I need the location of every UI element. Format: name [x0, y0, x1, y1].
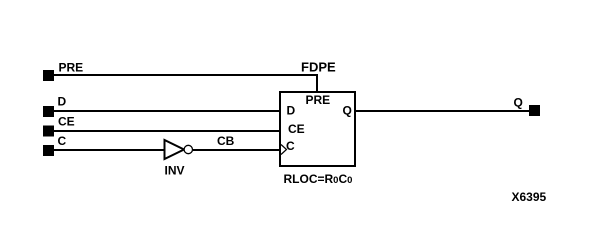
inverter INV bubble: [184, 145, 192, 153]
svg-text:Q: Q: [343, 104, 352, 118]
wire CB net: [193, 149, 280, 151]
svg-text:CE: CE: [58, 115, 75, 129]
svg-text:CE: CE: [288, 122, 305, 136]
terminal C: [43, 145, 54, 156]
terminal PRE: [43, 70, 54, 81]
inverter INV triangle: [165, 140, 185, 159]
svg-text:INV: INV: [165, 164, 185, 178]
svg-text:PRE: PRE: [306, 93, 331, 107]
svg-text:RLOC=R0C0: RLOC=R0C0: [284, 172, 353, 186]
terminal Q: [529, 105, 540, 116]
terminal D: [43, 106, 54, 117]
svg-text:FDPE: FDPE: [301, 60, 336, 75]
pin clock wedge: [281, 145, 287, 155]
wire PRE net: [54, 75, 317, 91]
terminal CE: [43, 126, 54, 137]
wire C net: [54, 149, 165, 151]
svg-text:D: D: [58, 95, 67, 109]
wire Q net: [355, 110, 529, 112]
svg-text:X6395: X6395: [512, 190, 547, 204]
wire D net: [54, 110, 280, 112]
flip-flop U1 FDPE body: [280, 92, 355, 166]
wire CE net: [54, 130, 280, 132]
svg-text:CB: CB: [217, 134, 235, 148]
svg-text:D: D: [287, 104, 296, 118]
svg-text:PRE: PRE: [59, 61, 84, 75]
svg-text:C: C: [58, 134, 67, 148]
svg-text:Q: Q: [514, 96, 523, 110]
svg-text:C: C: [286, 139, 295, 153]
